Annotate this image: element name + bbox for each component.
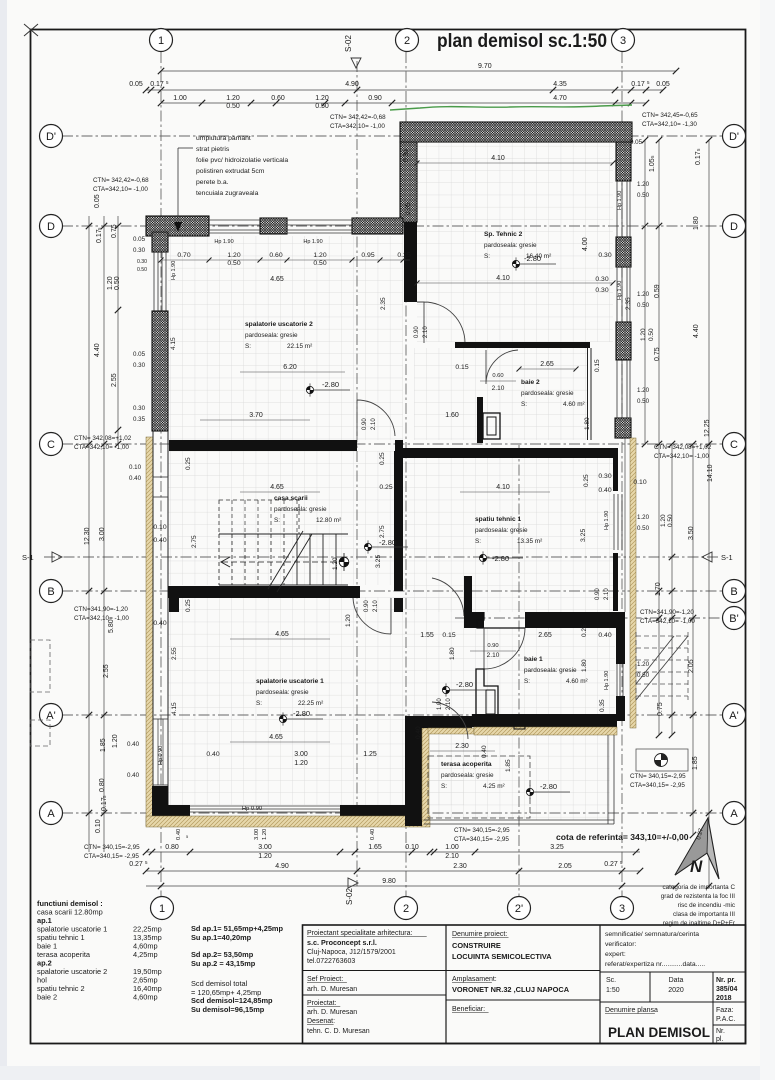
svg-text:0.90: 0.90: [595, 588, 601, 600]
svg-text:spatiu tehnic 1: spatiu tehnic 1: [475, 516, 521, 523]
right wall insulation strip below C: [630, 438, 636, 728]
svg-text:4.15: 4.15: [171, 702, 178, 715]
svg-text:0.50: 0.50: [315, 103, 329, 110]
grid circle D': [40, 125, 63, 148]
svg-text:0.60: 0.60: [271, 95, 285, 102]
svg-text:14.10: 14.10: [707, 464, 714, 482]
svg-text:1.20: 1.20: [112, 734, 119, 748]
svg-text:C: C: [730, 439, 738, 451]
svg-text:4.90: 4.90: [275, 863, 289, 870]
svg-text:CTA=342,10= -1,00: CTA=342,10= -1,00: [654, 453, 709, 460]
svg-text:CTA=342,10= -1,00: CTA=342,10= -1,00: [330, 123, 385, 130]
svg-text:2': 2': [515, 903, 523, 915]
svg-text:2.10: 2.10: [487, 652, 500, 659]
svg-text:2.55: 2.55: [171, 647, 178, 660]
svg-text:CTN= 340,15=-2,95: CTN= 340,15=-2,95: [454, 827, 510, 834]
svg-text:1.80: 1.80: [584, 417, 591, 430]
svg-text:0.30: 0.30: [598, 252, 611, 259]
bottom dimension chain 2: [146, 870, 640, 872]
grid circle B': [723, 607, 746, 630]
svg-text:1.70: 1.70: [655, 582, 662, 596]
svg-text:0.50: 0.50: [637, 302, 650, 309]
svg-text:1.20: 1.20: [637, 514, 650, 521]
svg-text:2.35: 2.35: [625, 297, 632, 310]
svg-text:polistiren extrudat 5cm: polistiren extrudat 5cm: [196, 168, 265, 175]
svg-text:Hp 1.90: Hp 1.90: [617, 191, 623, 210]
svg-text:s.c. Proconcept s.r.l.: s.c. Proconcept s.r.l.: [307, 938, 377, 947]
svg-text:0.10: 0.10: [633, 479, 646, 486]
svg-text:CTN= 340,15=-2,95: CTN= 340,15=-2,95: [84, 844, 140, 851]
svg-text:0.90: 0.90: [364, 600, 370, 612]
exterior wall: left stub of upper-right block: [400, 142, 417, 222]
title block box: [303, 925, 746, 1044]
svg-text:plan demisol sc.1:50: plan demisol sc.1:50: [437, 31, 607, 52]
svg-text:9.70: 9.70: [478, 63, 492, 70]
svg-text:0.17: 0.17: [150, 81, 164, 88]
svg-text:2.10: 2.10: [492, 385, 505, 392]
svg-text:Nr. pr.: Nr. pr.: [716, 977, 736, 984]
axis col 3: [621, 52, 623, 896]
svg-text:4.10: 4.10: [491, 155, 505, 162]
svg-text:0.35: 0.35: [599, 699, 606, 712]
svg-text:0.75: 0.75: [654, 347, 661, 361]
svg-text:0.50: 0.50: [313, 260, 326, 267]
svg-text:S:: S:: [521, 401, 527, 408]
svg-text:D': D': [729, 131, 739, 143]
svg-text:-2.80: -2.80: [456, 680, 473, 689]
svg-text:CTA=340,15= -2,95: CTA=340,15= -2,95: [84, 853, 139, 860]
svg-text:3.00: 3.00: [294, 751, 308, 758]
svg-text:Proiectant specialitate arhite: Proiectant specialitate arhitectura:: [307, 930, 412, 937]
svg-text:Proiectat:: Proiectat:: [307, 1000, 337, 1007]
svg-text:Desenat:: Desenat:: [307, 1018, 335, 1025]
door hol-spalatorie1: [432, 578, 464, 616]
svg-text:0.40: 0.40: [129, 475, 142, 482]
svg-text:0.25: 0.25: [379, 452, 386, 465]
left dimension chains: [88, 216, 90, 852]
svg-text:Hp 1.90: Hp 1.90: [214, 239, 233, 245]
title block left column rows: [303, 970, 447, 972]
door casa scarii top (swings up): [357, 400, 395, 436]
svg-text:Hp 0.90: Hp 0.90: [242, 806, 262, 812]
svg-text:2.10: 2.10: [604, 588, 610, 600]
baie1 right wall: [616, 612, 625, 664]
svg-text:spalatorie uscatorie 1: spalatorie uscatorie 1: [256, 678, 324, 685]
svg-text:S:: S:: [256, 700, 262, 707]
thin partition right of baie2: [587, 348, 589, 440]
grid circle 1: [150, 29, 173, 52]
svg-text:0.50: 0.50: [637, 398, 650, 405]
svg-text:Hp 1.90: Hp 1.90: [171, 261, 177, 280]
grid circle 2': [508, 897, 531, 920]
svg-text:3: 3: [620, 35, 626, 47]
svg-text:3.25: 3.25: [580, 529, 587, 542]
svg-text:tel.0722763603: tel.0722763603: [307, 958, 355, 965]
svg-text:1.20: 1.20: [640, 328, 647, 341]
svg-text:1.05: 1.05: [649, 158, 656, 172]
svg-text:1.00: 1.00: [173, 95, 187, 102]
svg-text:arh. D. Muresan: arh. D. Muresan: [307, 986, 357, 993]
svg-text:0.40: 0.40: [598, 632, 611, 639]
svg-text:CTN=341,90=-1,20: CTN=341,90=-1,20: [640, 609, 694, 616]
top dimension chain 9.70: [161, 70, 676, 72]
annotation leader line and arrow: [178, 147, 193, 149]
svg-text:expert:: expert:: [605, 951, 626, 958]
window row D x209-260: [209, 219, 260, 221]
svg-text:0.10: 0.10: [153, 524, 166, 531]
svg-text:0.40: 0.40: [370, 829, 376, 840]
svg-text:2.10: 2.10: [371, 418, 377, 430]
svg-text:0.80: 0.80: [99, 778, 106, 792]
svg-text:CTA=340,15= -2,95: CTA=340,15= -2,95: [630, 782, 685, 789]
svg-text:4.70: 4.70: [553, 95, 567, 102]
svg-text:0.40: 0.40: [481, 745, 488, 758]
window right wall y360-418: [616, 360, 618, 418]
svg-text:CTA=342,10= -1,00: CTA=342,10= -1,00: [74, 444, 129, 451]
svg-text:CTN= 340,15=-2,95: CTN= 340,15=-2,95: [630, 773, 686, 780]
svg-text:pardoseala: gresie: pardoseala: gresie: [245, 332, 298, 339]
svg-text:CTN= 342,08=+1,02: CTN= 342,08=+1,02: [654, 444, 712, 451]
svg-text:2.10: 2.10: [423, 326, 429, 338]
right dimension chains: [644, 140, 646, 445]
svg-text:terasa acoperita: terasa acoperita: [441, 761, 492, 768]
svg-text:2.05: 2.05: [558, 863, 572, 870]
axis col 2' (partial): [518, 445, 520, 896]
left exterior wall: hatch top segment: [152, 232, 168, 252]
svg-text:spalatorie uscatorie 2: spalatorie uscatorie 2: [37, 967, 107, 976]
svg-text:0.30: 0.30: [595, 276, 608, 283]
svg-text:4.25 m²: 4.25 m²: [483, 783, 505, 790]
svg-text:22.15 m²: 22.15 m²: [287, 343, 312, 350]
svg-text:2.55: 2.55: [111, 373, 118, 387]
svg-text:3.25: 3.25: [375, 555, 382, 568]
svg-text:0.50: 0.50: [226, 103, 240, 110]
svg-text:1: 1: [159, 903, 165, 915]
svg-text:Hp 1.90: Hp 1.90: [617, 281, 623, 300]
axis S-1 section line: [44, 556, 718, 558]
grid circle C: [40, 433, 63, 456]
grid circle D: [723, 215, 746, 238]
grid circle 2: [395, 897, 418, 920]
svg-text:0.25: 0.25: [397, 252, 410, 259]
svg-text:S:: S:: [524, 678, 530, 685]
svg-text:CTN= 342,42=-0,68: CTN= 342,42=-0,68: [330, 114, 386, 121]
svg-text:0.30: 0.30: [595, 287, 608, 294]
svg-text:B': B': [729, 613, 738, 625]
svg-text:-2.80: -2.80: [524, 254, 541, 263]
svg-text:0.40: 0.40: [127, 772, 140, 779]
svg-text:-2.80: -2.80: [293, 709, 310, 718]
svg-text:2.55: 2.55: [103, 664, 110, 678]
svg-text:2.10: 2.10: [373, 600, 379, 612]
svg-text:1.20: 1.20: [637, 181, 650, 188]
svg-text:0.05: 0.05: [94, 194, 101, 208]
svg-text:0.15: 0.15: [455, 364, 468, 371]
interior dim row under D wall: [161, 259, 410, 261]
svg-text:1.20: 1.20: [315, 95, 329, 102]
interior wall V1 spalatorie2/sp.tehnic2: [404, 222, 417, 302]
svg-text:12.80 m²: 12.80 m²: [316, 517, 341, 524]
axis row C: [62, 443, 723, 445]
svg-text:1.20: 1.20: [637, 291, 650, 298]
small pier on terasa wall: [514, 719, 525, 729]
svg-text:regim de inaltime D+P+Er: regim de inaltime D+P+Er: [663, 920, 735, 927]
svg-text:1.25: 1.25: [363, 751, 377, 758]
svg-text:pardoseala: gresie: pardoseala: gresie: [475, 527, 528, 534]
interior wall H1 sp.tehnic2/baie2: [455, 342, 590, 348]
svg-text:0.50: 0.50: [667, 514, 674, 527]
svg-text:4.00: 4.00: [582, 237, 589, 251]
svg-text:0.80: 0.80: [165, 844, 179, 851]
svg-text:0.15: 0.15: [594, 359, 601, 372]
grid circle B: [40, 580, 63, 603]
svg-text:0.70: 0.70: [177, 252, 190, 259]
svg-text:4.65: 4.65: [270, 276, 284, 283]
grid circle 1: [151, 897, 174, 920]
stair break line (double diagonal): [268, 531, 303, 589]
svg-text:baie 1: baie 1: [524, 656, 543, 663]
svg-text:1.20: 1.20: [294, 760, 308, 767]
svg-text:-2.80: -2.80: [322, 380, 339, 389]
svg-text:0.05: 0.05: [133, 236, 146, 243]
baie1 bottom wall: [472, 714, 617, 727]
svg-text:pardoseala: gresie: pardoseala: gresie: [524, 667, 577, 674]
svg-text:PLAN DEMISOL: PLAN DEMISOL: [608, 1025, 710, 1040]
svg-text:-2.80: -2.80: [492, 554, 509, 563]
svg-text:0.17: 0.17: [101, 797, 108, 811]
svg-text:Su ap.2 = 43,15mp: Su ap.2 = 43,15mp: [191, 959, 256, 968]
svg-text:1.20: 1.20: [107, 276, 114, 290]
bottom wall window (Hp 0.90): [190, 805, 340, 807]
wall V4 casa scarii right: [394, 451, 403, 591]
svg-text:Hp 0.90: Hp 0.90: [158, 746, 164, 765]
svg-text:0.50: 0.50: [637, 192, 650, 199]
floor tile grid: spalatorie uscatorie 2: [168, 236, 403, 440]
svg-text:1.00: 1.00: [445, 844, 459, 851]
svg-text:-2.80: -2.80: [540, 782, 557, 791]
svg-text:2.65: 2.65: [538, 632, 552, 639]
door baie2 (in H1): [486, 350, 518, 384]
wall V6 hol/spalatorie1: [464, 576, 472, 612]
axis row D': [62, 135, 723, 137]
svg-text:1.20: 1.20: [637, 387, 650, 394]
svg-text:4.10: 4.10: [496, 484, 510, 491]
svg-text:Nr.: Nr.: [716, 1028, 725, 1035]
svg-text:1.00: 1.00: [437, 698, 443, 710]
window row D x287-352: [287, 219, 352, 221]
svg-text:pardoseala: gresie: pardoseala: gresie: [274, 506, 327, 513]
svg-text:grad de rezistenta la foc III: grad de rezistenta la foc III: [661, 893, 735, 900]
svg-text:2: 2: [404, 35, 410, 47]
svg-text:-2.80: -2.80: [379, 538, 396, 547]
svg-text:Hp 1.90: Hp 1.90: [303, 239, 322, 245]
svg-text:Sd ap.2= 53,50mp: Sd ap.2= 53,50mp: [191, 950, 254, 959]
terrain line CTN green: [390, 105, 632, 110]
svg-text:Beneficiar:: Beneficiar:: [452, 1006, 485, 1013]
wall H2 casa scarii top: [169, 440, 357, 451]
svg-text:0.25: 0.25: [379, 484, 392, 491]
svg-text:2020: 2020: [668, 987, 684, 994]
svg-text:baie 2: baie 2: [37, 993, 57, 1002]
svg-text:pardoseala: gresie: pardoseala: gresie: [441, 772, 494, 779]
svg-text:Scd demisol total: Scd demisol total: [191, 979, 248, 988]
svg-text:2.05: 2.05: [688, 659, 695, 673]
svg-text:0.60: 0.60: [492, 373, 503, 379]
svg-text:1.80: 1.80: [581, 659, 588, 672]
svg-text:CTA=342,10= -1,00: CTA=342,10= -1,00: [640, 618, 695, 625]
floor tile grid: spatiu tehnic 1: [403, 458, 613, 612]
svg-text:22.25 m²: 22.25 m²: [298, 700, 323, 707]
grid circle 3: [611, 897, 634, 920]
grid circle B: [723, 580, 746, 603]
svg-text:tehn. C. D. Muresan: tehn. C. D. Muresan: [307, 1028, 370, 1035]
svg-text:Denumire proiect:: Denumire proiect:: [452, 931, 507, 938]
svg-text:4,25mp: 4,25mp: [133, 950, 158, 959]
svg-text:Sd ap.1= 51,65mp+4,25mp: Sd ap.1= 51,65mp+4,25mp: [191, 924, 284, 933]
svg-text:1.20: 1.20: [660, 514, 667, 527]
left wall window recess y719-785: [153, 719, 168, 785]
svg-text:CTA=342,10= -1,30: CTA=342,10= -1,30: [642, 121, 697, 128]
svg-text:0.30: 0.30: [137, 259, 147, 265]
svg-text:0.90: 0.90: [368, 95, 382, 102]
row D wall: hatched segments with windows: [146, 216, 209, 236]
baie2 fixture: [483, 413, 500, 439]
svg-text:4.40: 4.40: [693, 324, 700, 338]
svg-text:Faza:: Faza:: [716, 1007, 734, 1014]
axis row A': [62, 714, 723, 716]
svg-text:0.90: 0.90: [362, 418, 368, 430]
svg-text:1.85: 1.85: [100, 738, 107, 752]
north arrow: [675, 818, 719, 879]
svg-text:Cluj-Napoca, J12/1579/2001: Cluj-Napoca, J12/1579/2001: [307, 949, 396, 956]
svg-text:pardoseala: gresie: pardoseala: gresie: [521, 390, 574, 397]
title block mid column rows: [446, 970, 600, 972]
svg-text:S-02: S-02: [344, 35, 353, 52]
svg-text:3.50: 3.50: [688, 526, 695, 540]
svg-text:0.17: 0.17: [96, 229, 103, 243]
svg-text:0.05: 0.05: [405, 202, 412, 215]
svg-text:2.65: 2.65: [540, 361, 554, 368]
svg-text:CTA=342,10= -1,00: CTA=342,10= -1,00: [93, 186, 148, 193]
grid circle D: [40, 215, 63, 238]
svg-text:4.60 m²: 4.60 m²: [566, 678, 588, 685]
svg-text:0.75: 0.75: [657, 702, 664, 716]
svg-text:0.35: 0.35: [133, 416, 146, 423]
svg-text:0.40: 0.40: [127, 741, 140, 748]
svg-text:1.85: 1.85: [692, 756, 699, 770]
exterior stair (right of terasa) dashed steps: [636, 635, 688, 637]
svg-text:1.20: 1.20: [637, 661, 650, 668]
svg-text:folie pvc/ hidroizolatie verti: folie pvc/ hidroizolatie verticala: [196, 157, 288, 164]
bottom dimension chain 9.80: [146, 885, 676, 887]
svg-text:4.90: 4.90: [345, 81, 359, 88]
svg-text:0.75: 0.75: [111, 224, 118, 238]
svg-text:1.20: 1.20: [313, 252, 326, 259]
svg-text:0.05: 0.05: [129, 81, 143, 88]
svg-text:2.30: 2.30: [455, 743, 469, 750]
wall H5 baie1 top: [464, 612, 484, 628]
svg-text:pl.: pl.: [716, 1036, 723, 1043]
svg-text:0.40: 0.40: [176, 829, 182, 840]
svg-text:LOCUINTA SEMICOLECTIVA: LOCUINTA SEMICOLECTIVA: [452, 952, 552, 961]
svg-text:D: D: [730, 221, 738, 233]
svg-text:4.35: 4.35: [553, 81, 567, 88]
svg-text:0.90: 0.90: [414, 326, 420, 338]
svg-text:0.90: 0.90: [487, 643, 498, 649]
top dimension chain 3: [161, 102, 646, 104]
svg-text:0.10: 0.10: [95, 819, 102, 833]
svg-text:0.15: 0.15: [442, 632, 455, 639]
right wall window y494-550: [613, 494, 615, 550]
svg-text:D: D: [47, 221, 55, 233]
door baie1: [484, 628, 525, 669]
svg-text:3.00: 3.00: [254, 829, 260, 840]
grid circle 2: [396, 29, 419, 52]
section marker S-1 right: [702, 552, 712, 562]
svg-text:385/04: 385/04: [716, 986, 738, 993]
svg-text:3: 3: [619, 903, 625, 915]
svg-text:0.30: 0.30: [133, 405, 146, 412]
svg-text:1.20: 1.20: [227, 252, 240, 259]
svg-text:0.30: 0.30: [403, 149, 410, 162]
floor tile grid: baie 1: [464, 628, 615, 714]
axis row B: [62, 590, 723, 592]
svg-text:2.35: 2.35: [380, 297, 387, 310]
svg-text:2018: 2018: [716, 995, 732, 1002]
svg-text:1.20: 1.20: [262, 829, 268, 840]
svg-text:pardoseala: gresie: pardoseala: gresie: [484, 242, 537, 249]
svg-text:clasa de importanta III: clasa de importanta III: [673, 911, 735, 918]
svg-text:risc de incendiu -mic: risc de incendiu -mic: [678, 902, 735, 909]
svg-text:0.10: 0.10: [405, 844, 419, 851]
svg-text:0.50: 0.50: [114, 276, 121, 290]
svg-text:0.50: 0.50: [637, 525, 650, 532]
svg-text:Su ap.1=40,20mp: Su ap.1=40,20mp: [191, 933, 252, 942]
svg-text:0.50: 0.50: [137, 267, 147, 273]
grid circle D': [723, 125, 746, 148]
svg-text:4.65: 4.65: [269, 734, 283, 741]
svg-text:0.27: 0.27: [604, 861, 618, 868]
left exterior wall: big hatch segment: [152, 311, 168, 431]
axis row B' (right part): [455, 617, 723, 619]
svg-text:P.A.C.: P.A.C.: [716, 1016, 735, 1023]
svg-text:0.59: 0.59: [654, 284, 661, 298]
terasa edge lines: [424, 819, 614, 821]
svg-text:4,60mp: 4,60mp: [133, 993, 158, 1002]
svg-text:0.27: 0.27: [129, 861, 143, 868]
svg-text:1.65: 1.65: [368, 844, 382, 851]
terasa roof overhang dashed: [428, 756, 530, 818]
svg-text:CTN=341,90=-1,20: CTN=341,90=-1,20: [74, 606, 128, 613]
exterior wall: top band of upper-right block: [400, 122, 632, 142]
svg-text:2.75: 2.75: [191, 535, 198, 548]
svg-text:S:: S:: [475, 538, 481, 545]
svg-text:strat pietris: strat pietris: [196, 146, 230, 153]
svg-text:perete b.a.: perete b.a.: [196, 179, 229, 186]
svg-text:0.50: 0.50: [637, 672, 650, 679]
svg-text:C: C: [47, 439, 55, 451]
svg-text:CTA=342,10= -1,00: CTA=342,10= -1,00: [74, 615, 129, 622]
svg-text:S:: S:: [245, 343, 251, 350]
svg-text:1.85: 1.85: [505, 759, 512, 772]
floor tile grid: spalatorie uscatorie 1: [168, 597, 464, 805]
svg-text:0.40: 0.40: [598, 487, 611, 494]
svg-text:12.30: 12.30: [84, 527, 91, 545]
svg-text:spalatorie uscatorie 2: spalatorie uscatorie 2: [245, 321, 313, 328]
floor tile grid: baie 2 zone: [414, 348, 588, 440]
door casa scarii bottom: [353, 598, 391, 634]
neighbour outline dashes left: [30, 640, 50, 692]
